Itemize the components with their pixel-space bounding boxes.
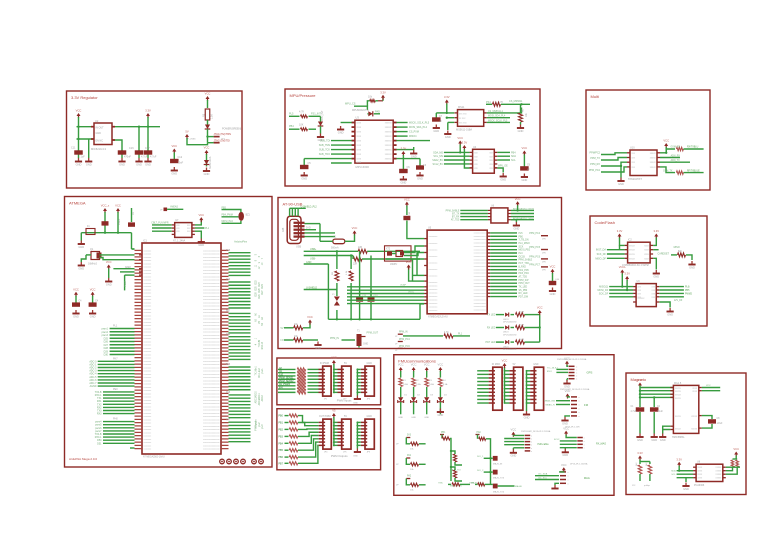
svg-text:xxxxxxxxxxx: xxxxxxxxxxx [474, 266, 487, 268]
svg-text:U3: U3 [356, 116, 360, 120]
svg-text:xxxxx: xxxxx [716, 474, 723, 476]
svg-text:TX+_BLKJ: TX+_BLKJ [547, 367, 558, 369]
svg-text:xxxxxxxxxxx: xxxxxxxxxxx [474, 276, 487, 278]
svg-text:22R: 22R [353, 264, 358, 266]
svg-text:IN PWM: IN PWM [320, 362, 329, 365]
svg-text:xxxxxxxxxxxxxxx: xxxxxxxxxxxxxxx [203, 273, 220, 275]
svg-text:VCC: VCC [515, 197, 521, 201]
svg-text:xxxxxxx: xxxxxxx [144, 406, 153, 408]
svg-text:xxxxxxxx: xxxxxxxx [429, 269, 439, 271]
svg-text:GND: GND [301, 176, 307, 180]
svg-text:xxxxxxxxxxxxxxx: xxxxxxxxxxxxxxx [203, 302, 220, 304]
svg-text:PWRGSM2_DF13-4P-1.25DSA: PWRGSM2_DF13-4P-1.25DSA [557, 358, 587, 361]
svg-text:xxxxxxxxxxxxxxx: xxxxxxxxxxxxxxx [203, 442, 220, 444]
svg-text:xxxxxxx: xxxxxxx [144, 449, 153, 451]
svg-text:D29: D29 [259, 294, 261, 299]
svg-text:x: x [579, 408, 580, 410]
svg-text:10uF: 10uF [178, 162, 184, 165]
svg-text:16MHz: 16MHz [390, 264, 398, 266]
svg-text:U-SHIELD_PL2: U-SHIELD_PL2 [301, 206, 318, 208]
svg-text:SDA2_BV: SDA2_BV [432, 159, 443, 162]
svg-text:3.3V: 3.3V [637, 378, 643, 382]
svg-text:GND: GND [398, 417, 403, 419]
svg-text:xxxxxxxxxxx: xxxxxxxxxxx [474, 310, 487, 312]
svg-text:PL1: PL1 [205, 228, 210, 230]
svg-text:PB1: PB1 [441, 432, 446, 434]
svg-text:PPM_SABLE: PPM_SABLE [519, 259, 533, 262]
svg-text:xxxxxxxxxxxxxxx: xxxxxxxxxxxxxxx [203, 348, 220, 350]
svg-text:xxxxxxxxxxxxxxx: xxxxxxxxxxxxxxx [203, 325, 220, 327]
svg-text:SCL2_BV: SCL2_BV [433, 163, 444, 166]
svg-text:xxxxxx: xxxxxx [385, 150, 393, 152]
svg-text:GND: GND [524, 415, 530, 419]
svg-text:MG1.5: MG1.5 [674, 382, 682, 385]
svg-text:DFLS240LED: DFLS240LED [503, 349, 517, 351]
svg-text:GND: GND [353, 456, 358, 458]
svg-text:xxxxxxxxxxx: xxxxxxxxxxx [474, 256, 487, 258]
svg-text:x: x [579, 405, 580, 407]
svg-text:8_RXD: 8_RXD [519, 266, 527, 268]
svg-text:xxxxxxxxxxxxxxx: xxxxxxxxxxxxxxx [203, 345, 220, 347]
svg-text:xxxxxxxx: xxxxxxxx [429, 300, 439, 302]
svg-text:x: x [568, 472, 569, 474]
svg-text:LED3: LED3 [503, 346, 509, 348]
svg-text:D/O_1: D/O_1 [477, 456, 484, 458]
svg-text:PE0: PE0 [113, 388, 118, 391]
svg-text:xxxxxxxxxxxxxxx: xxxxxxxxxxxxxxx [203, 312, 220, 314]
svg-text:VCC: VCC [171, 144, 177, 148]
svg-text:PK7: PK7 [113, 358, 118, 361]
svg-text:GND: GND [73, 314, 79, 318]
svg-text:GND: GND [562, 421, 568, 425]
svg-text:PL1: PL1 [458, 334, 463, 336]
svg-text:PB6: PB6 [279, 457, 284, 459]
svg-text:FMUcommunications: FMUcommunications [398, 359, 436, 364]
svg-text:MPU-6000: MPU-6000 [356, 165, 370, 169]
svg-text:xxxxxx: xxxxxx [385, 154, 393, 156]
svg-text:PD2_PD5: PD2_PD5 [519, 270, 530, 272]
svg-text:GND: GND [637, 438, 643, 442]
svg-text:BT_TX: BT_TX [452, 214, 460, 216]
svg-text:xxxxxxxxxxx: xxxxxxxxxxx [474, 233, 487, 235]
svg-text:SUB_TCK: SUB_TCK [319, 149, 330, 152]
svg-text:A9_PWM3: A9_PWM3 [279, 383, 291, 386]
svg-text:GND: GND [651, 438, 657, 442]
svg-text:xxxxxxxxxxxxxxx: xxxxxxxxxxxxxxx [203, 263, 220, 265]
svg-text:xxxxxxxxxxxxxxx: xxxxxxxxxxxxxxx [203, 267, 220, 269]
svg-text:PPM_SABLE: PPM_SABLE [446, 209, 460, 212]
svg-text:SCK_DF: SCK_DF [599, 292, 609, 295]
svg-text:xxxxxxxxxxxxxxx: xxxxxxxxxxxxxxx [203, 306, 220, 308]
svg-text:UVCC: UVCC [408, 292, 415, 294]
svg-text:7_TB_DN: 7_TB_DN [519, 240, 529, 242]
svg-text:5V: 5V [344, 362, 347, 365]
svg-text:VCC: VCC [565, 389, 571, 393]
svg-text:xxxxxxxxxxxxxxx: xxxxxxxxxxxxxxx [203, 416, 220, 418]
svg-text:16MHz2: 16MHz2 [88, 263, 98, 266]
svg-text:ISR.cable: ISR.cable [537, 442, 549, 446]
svg-text:SS_PB0: SS_PB0 [519, 290, 528, 292]
svg-text:4.7uF: 4.7uF [141, 156, 148, 159]
svg-text:GND: GND [96, 132, 102, 135]
svg-text:5V: 5V [344, 415, 347, 418]
svg-text:JTAG (5V)/TRN: JTAG (5V)/TRN [214, 133, 232, 136]
svg-text:MSCK_SCLK_PL5: MSCK_SCLK_PL5 [409, 122, 430, 125]
svg-text:3.3V: 3.3V [637, 451, 643, 455]
svg-text:OUT PWM: OUT PWM [319, 415, 331, 418]
svg-text:GND: GND [198, 243, 204, 247]
svg-text:xxxxx: xxxxx [675, 391, 682, 393]
svg-text:x: x [531, 442, 532, 444]
svg-text:5V: 5V [281, 327, 284, 330]
svg-text:VCC: VCC [564, 357, 570, 361]
svg-text:xxxxxxx: xxxxxxx [144, 341, 153, 343]
svg-text:SDA: SDA [511, 155, 516, 158]
svg-text:xxxxx: xxxxx [650, 167, 657, 169]
svg-text:xxxxxxx: xxxxxxx [144, 426, 153, 428]
svg-text:GND: GND [353, 403, 358, 405]
svg-text:VCC: VCC [76, 109, 82, 113]
svg-text:xxxxxxx: xxxxxxx [144, 296, 153, 298]
svg-text:DFLS240LED: DFLS240LED [503, 335, 517, 337]
svg-text:GND: GND [171, 171, 177, 175]
svg-text:GND: GND [90, 314, 96, 318]
svg-text:xxxxxxxxxxxxxxx: xxxxxxxxxxxxxxx [203, 289, 220, 291]
svg-text:xxxxx: xxxxx [629, 250, 636, 252]
svg-text:RX_LED: RX_LED [519, 293, 528, 295]
svg-text:MEAS_IV: MEAS_IV [546, 404, 556, 407]
svg-text:xxxxxxxxxxxxxxx: xxxxxxxxxxxxxxx [203, 387, 220, 389]
svg-text:xxxxxxxxxxxxxxx: xxxxxxxxxxxxxxx [203, 384, 220, 386]
svg-text:xxxxxxxx: xxxxxxxx [429, 310, 439, 312]
svg-text:VCC: VCC [522, 146, 528, 150]
svg-text:x: x [531, 435, 532, 437]
svg-text:SDA_MS: SDA_MS [433, 151, 443, 154]
svg-text:xxxxxxx: xxxxxxx [144, 377, 153, 379]
svg-text:VCC: VCC [502, 359, 508, 363]
svg-text:PB5: PB5 [222, 207, 227, 209]
svg-text:xxxxxxx: xxxxxxx [144, 273, 153, 275]
svg-text:DFLS240LED: DFLS240LED [503, 322, 517, 324]
svg-text:xxxxxxxxxxx: xxxxxxxxxxx [474, 253, 487, 255]
svg-text:xxxxxxxx: xxxxxxxx [429, 296, 439, 298]
svg-text:xxxxxxx: xxxxxxx [144, 322, 153, 324]
svg-text:xxxxxxx: xxxxxxx [144, 393, 153, 395]
svg-text:D27: D27 [262, 290, 264, 295]
svg-text:GND: GND [315, 346, 321, 350]
svg-text:xxxxx: xxxxx [650, 162, 657, 164]
svg-text:USB+: USB+ [310, 248, 317, 251]
svg-text:GND: GND [514, 226, 520, 230]
svg-text:RX/J: RX/J [547, 371, 552, 373]
svg-text:IC2: IC2 [628, 239, 632, 242]
svg-text:x: x [584, 444, 585, 446]
svg-text:10K: 10K [299, 124, 304, 127]
svg-text:INST_DA: INST_DA [596, 249, 607, 252]
svg-text:I2C_SCL: I2C_SCL [538, 477, 548, 479]
svg-text:GND: GND [306, 261, 312, 264]
svg-text:PB1: PB1 [279, 423, 284, 425]
svg-text:SCL: SCL [511, 159, 516, 162]
svg-text:xxxxxxx: xxxxxxx [144, 410, 153, 412]
svg-text:CS_MS5611-1: CS_MS5611-1 [488, 111, 504, 113]
svg-text:xxxxx: xxxxx [629, 258, 636, 260]
svg-text:xxxxxxxxxxxxxxx: xxxxxxxxxxxxxxx [203, 403, 220, 405]
svg-text:GND: GND [433, 129, 439, 133]
svg-text:22R: 22R [358, 247, 363, 249]
svg-text:AT_1_24AA: AT_1_24AA [173, 240, 186, 243]
svg-text:VCC: VCC [331, 356, 337, 360]
svg-text:PB5: PB5 [685, 290, 690, 292]
svg-text:VCC: VCC [438, 363, 444, 367]
svg-text:HMC5883L: HMC5883L [672, 436, 685, 439]
svg-text:xxxxxxx: xxxxxxx [144, 348, 153, 350]
svg-text:xxxxxxxx: xxxxxxxx [429, 282, 439, 284]
svg-text:xxxxxxxxxxxxxxx: xxxxxxxxxxxxxxx [203, 250, 220, 252]
svg-text:MOSI_SDA_PL4: MOSI_SDA_PL4 [409, 126, 428, 129]
svg-text:GND: GND [76, 162, 82, 166]
svg-text:BZ1: BZ1 [246, 214, 251, 216]
svg-text:xxxxxxxxxxxxxxx: xxxxxxxxxxxxxxx [203, 328, 220, 330]
svg-text:xxxxxxx: xxxxxxx [144, 358, 153, 360]
svg-text:PWM: PWM [125, 281, 127, 287]
svg-text:xxxxx: xxxxx [675, 395, 682, 397]
svg-text:CS_PXM: CS_PXM [409, 131, 419, 134]
svg-text:xxxxxx: xxxxxx [385, 136, 393, 138]
svg-text:GND: GND [511, 454, 517, 458]
svg-text:xx xxx: xx xxx [459, 118, 466, 120]
svg-text:CBLT_PLN MPR: CBLT_PLN MPR [151, 222, 169, 224]
svg-text:D28: D28 [256, 292, 258, 297]
svg-text:xxxxxxxx: xxxxxxxx [429, 289, 439, 291]
svg-text:xxxxx: xxxxx [675, 398, 682, 400]
svg-text:GND: GND [119, 162, 125, 166]
svg-text:CS_MS5611: CS_MS5611 [509, 100, 523, 103]
svg-text:3.3V: 3.3V [380, 91, 386, 95]
svg-text:1.5K: 1.5K [211, 114, 214, 119]
svg-text:xxxxxxxxxxx: xxxxxxxxxxx [474, 239, 487, 241]
svg-text:xxxxxxxxxxxxxxx: xxxxxxxxxxxxxxx [203, 423, 220, 425]
svg-text:.22uF: .22uF [717, 423, 723, 425]
svg-text:4.7uF: 4.7uF [150, 156, 157, 159]
svg-text:PPM_PC7: PPM_PC7 [529, 264, 540, 266]
svg-text:xxxxxxx: xxxxxxx [144, 384, 153, 386]
svg-text:VCC: VCC [205, 92, 211, 96]
svg-text:xxxxxxx: xxxxxxx [144, 416, 153, 418]
svg-text:x: x [576, 376, 577, 378]
svg-text:USB: USB [296, 246, 301, 249]
svg-text:xxxxxxx: xxxxxxx [144, 361, 153, 363]
svg-text:UCAP: UCAP [400, 284, 407, 287]
svg-text:PCA9306: PCA9306 [694, 484, 705, 487]
svg-text:MAJS_IN: MAJS_IN [493, 463, 503, 466]
svg-text:GND: GND [411, 417, 416, 419]
svg-text:MIC5219-3.3: MIC5219-3.3 [91, 147, 107, 151]
svg-text:xxxxxxxxxxxxxxx: xxxxxxxxxxxxxxx [203, 319, 220, 321]
svg-text:xxxxxxx: xxxxxxx [144, 302, 153, 304]
svg-text:PB0: PB0 [279, 416, 284, 418]
svg-text:xxxxx: xxxxx [650, 153, 657, 155]
svg-text:MPU6000/AT-G: MPU6000/AT-G [352, 109, 369, 112]
svg-text:GND: GND [424, 417, 429, 419]
svg-text:100nF: 100nF [119, 218, 121, 225]
svg-text:TX LED: TX LED [487, 314, 496, 317]
svg-text:ATMEGA: ATMEGA [69, 201, 86, 206]
svg-text:PL1: PL1 [113, 325, 118, 328]
svg-text:xxxxxxxx: xxxxxxxx [429, 243, 439, 245]
svg-text:GND: GND [86, 162, 92, 166]
svg-text:C12: C12 [178, 156, 183, 159]
svg-text:GSM_TX: GSM_TX [663, 170, 673, 172]
svg-text:xxxxxx: xxxxxx [385, 127, 393, 129]
svg-text:xxxxxxx: xxxxxxx [144, 280, 153, 282]
svg-text:x: x [584, 438, 585, 440]
svg-text:xxxxxxx: xxxxxxx [144, 263, 153, 265]
svg-text:xxxxxxxxxxx: xxxxxxxxxxx [474, 246, 487, 248]
svg-text:ADC4: ADC4 [258, 399, 261, 406]
svg-text:GND: GND [689, 265, 695, 269]
svg-text:3.3V: 3.3V [401, 147, 407, 151]
svg-text:PL6i: PL6i [685, 287, 690, 289]
svg-text:xxxxxxxxxxx: xxxxxxxxxxx [474, 296, 487, 298]
svg-text:RF/TXBLUE: RF/TXBLUE [687, 171, 700, 173]
svg-text:PPM_PC4: PPM_PC4 [529, 233, 540, 235]
svg-text:PPM_OUT: PPM_OUT [519, 283, 531, 285]
svg-text:OC1B: OC1B [519, 256, 526, 258]
svg-text:CARDDET: CARDDET [658, 253, 670, 256]
svg-text:GND: GND [618, 182, 624, 186]
svg-text:xxxxxx: xxxxxx [385, 145, 393, 147]
svg-text:xxxxxxxx: xxxxxxxx [429, 250, 439, 252]
svg-text:MISO4: MISO4 [409, 135, 417, 138]
svg-text:PA1: PA1 [407, 454, 412, 457]
svg-text:xxxxxxxxxxxxxxx: xxxxxxxxxxxxxxx [203, 436, 220, 438]
svg-text:SCL2: SCL2 [554, 439, 560, 441]
svg-text:xxxxxxx: xxxxxxx [144, 419, 153, 421]
svg-text:SDA: SDA [671, 470, 676, 473]
svg-text:xxxxxxxxxxxxxxx: xxxxxxxxxxxxxxx [203, 341, 220, 343]
svg-text:x: x [576, 366, 577, 368]
svg-text:GND: GND [204, 172, 210, 176]
svg-text:3.3V: 3.3V [624, 272, 630, 276]
svg-text:GND: GND [438, 413, 444, 417]
svg-text:x: x [568, 476, 569, 478]
svg-text:3.3V: 3.3V [654, 229, 660, 233]
svg-text:ATMEGA32U2_MOSI: ATMEGA32U2_MOSI [513, 208, 535, 211]
svg-text:xxxxxxx: xxxxxxx [144, 299, 153, 301]
svg-text:PH0: PH0 [113, 418, 118, 421]
svg-text:xxxxxxx: xxxxxxx [144, 293, 153, 295]
svg-text:PB4_PWM: PB4_PWM [222, 215, 233, 217]
svg-text:MPU/Pressure: MPU/Pressure [290, 93, 317, 98]
svg-text:xxxxxxxx: xxxxxxxx [429, 276, 439, 278]
svg-text:xxxxxxxxxxx: xxxxxxxxxxx [474, 259, 487, 261]
svg-text:MOSI_PL6: MOSI_PL6 [222, 221, 234, 223]
svg-text:DF13-4P-1.25DSA: DF13-4P-1.25DSA [570, 462, 588, 465]
svg-text:xxxxxxxxxxxxxxx: xxxxxxxxxxxxxxx [203, 293, 220, 295]
svg-text:xxxxxxx: xxxxxxx [144, 367, 153, 369]
svg-text:PA7: PA7 [226, 310, 231, 313]
svg-text:GND: GND [78, 245, 84, 249]
svg-text:xxxxx: xxxxx [716, 478, 723, 480]
svg-text:xxxxx: xxxxx [650, 158, 657, 160]
svg-text:GND: GND [136, 162, 142, 166]
svg-text:3.3V: 3.3V [444, 95, 450, 99]
svg-text:GND: GND [367, 415, 373, 418]
svg-text:AT_TD5: AT_TD5 [519, 275, 528, 278]
svg-text:ADC2: ADC2 [261, 395, 264, 402]
svg-text:PA9: PA9 [226, 278, 231, 281]
svg-text:D51: D51 [97, 442, 102, 445]
svg-text:xxxxxxx: xxxxxxx [144, 257, 153, 259]
svg-text:PPM_RX: PPM_RX [590, 163, 600, 166]
svg-text:AT45DB161D-SU 2.5MHZ: AT45DB161D-SU 2.5MHZ [622, 264, 649, 267]
svg-text:PA8: PA8 [226, 333, 231, 336]
svg-text:xxxxxxxxxxxxxxx: xxxxxxxxxxxxxxx [203, 299, 220, 301]
svg-text:TX0-B: TX0-B [259, 340, 261, 347]
svg-text:I-MEAS: I-MEAS [170, 206, 178, 209]
svg-text:xxxxxxx: xxxxxxx [144, 332, 153, 334]
svg-text:xxxxxxxxxxxxxxx: xxxxxxxxxxxxxxx [203, 322, 220, 324]
svg-text:xxxxxxxxxxxxxxx: xxxxxxxxxxxxxxx [203, 406, 220, 408]
svg-text:AT_TD5: AT_TD5 [451, 219, 460, 222]
svg-text:MAJ40: MAJ40 [515, 485, 523, 488]
svg-text:PD3_PD4: PD3_PD4 [519, 273, 530, 275]
svg-text:PL5: PL5 [289, 112, 294, 115]
svg-text:4.7K: 4.7K [299, 110, 304, 113]
svg-text:xxxxxxxxxxxxxxx: xxxxxxxxxxxxxxx [203, 283, 220, 285]
svg-text:I/O: I/O [281, 339, 284, 342]
svg-text:xxxxxxx: xxxxxxx [144, 250, 153, 252]
svg-text:PPM_PC4: PPM_PC4 [399, 339, 410, 341]
svg-text:SUB_TDI: SUB_TDI [320, 140, 330, 143]
svg-text:xxxxxxxxxxx: xxxxxxxxxxx [474, 289, 487, 291]
svg-text:GND: GND [500, 177, 506, 181]
svg-text:xxxxxxx: xxxxxxx [144, 319, 153, 321]
svg-text:GND: GND [564, 384, 570, 388]
svg-text:AGND: AGND [90, 385, 97, 388]
svg-text:xxxxxxxx: xxxxxxxx [429, 256, 439, 258]
svg-text:xxxxxxxxxxxxxxx: xxxxxxxxxxxxxxx [203, 445, 220, 447]
svg-text:VCC: VCC [73, 287, 79, 291]
svg-text:x: x [584, 448, 585, 450]
svg-text:VCC: VCC [307, 315, 313, 319]
svg-text:VCC: VCC [511, 428, 517, 432]
svg-text:MAJS_TX3: MAJS_TX3 [493, 476, 505, 479]
svg-text:PL4_MISO: PL4_MISO [519, 243, 530, 245]
svg-text:EN NC: EN NC [96, 139, 104, 142]
svg-text:ArduPilot Mega 2.0.0: ArduPilot Mega 2.0.0 [69, 457, 97, 461]
svg-text:GND: GND [667, 312, 673, 316]
svg-text:PL3: PL3 [519, 253, 524, 255]
svg-text:x: x [579, 412, 580, 414]
svg-text:PPM_IN: PPM_IN [330, 337, 339, 340]
svg-text:GND: GND [562, 453, 568, 457]
svg-text:x: x [568, 483, 569, 485]
svg-text:VCC: VCC [90, 287, 96, 291]
svg-text:3.3V: 3.3V [676, 457, 682, 461]
svg-text:pw2: pw2 [259, 422, 261, 427]
svg-text:xxxxxxx: xxxxxxx [144, 371, 153, 373]
svg-text:xxxxxxx: xxxxxxx [144, 423, 153, 425]
svg-text:x: x [531, 445, 532, 447]
svg-text:PB0: PB0 [519, 236, 524, 238]
svg-text:xxxxxxxxxxxxxxx: xxxxxxxxxxxxxxx [203, 270, 220, 272]
svg-text:GND: GND [522, 178, 528, 182]
svg-text:GPS: GPS [587, 371, 593, 375]
svg-text:XT2: XT2 [386, 249, 391, 251]
svg-text:xxxxxxxxxxxxxxx: xxxxxxxxxxxxxxx [203, 393, 220, 395]
